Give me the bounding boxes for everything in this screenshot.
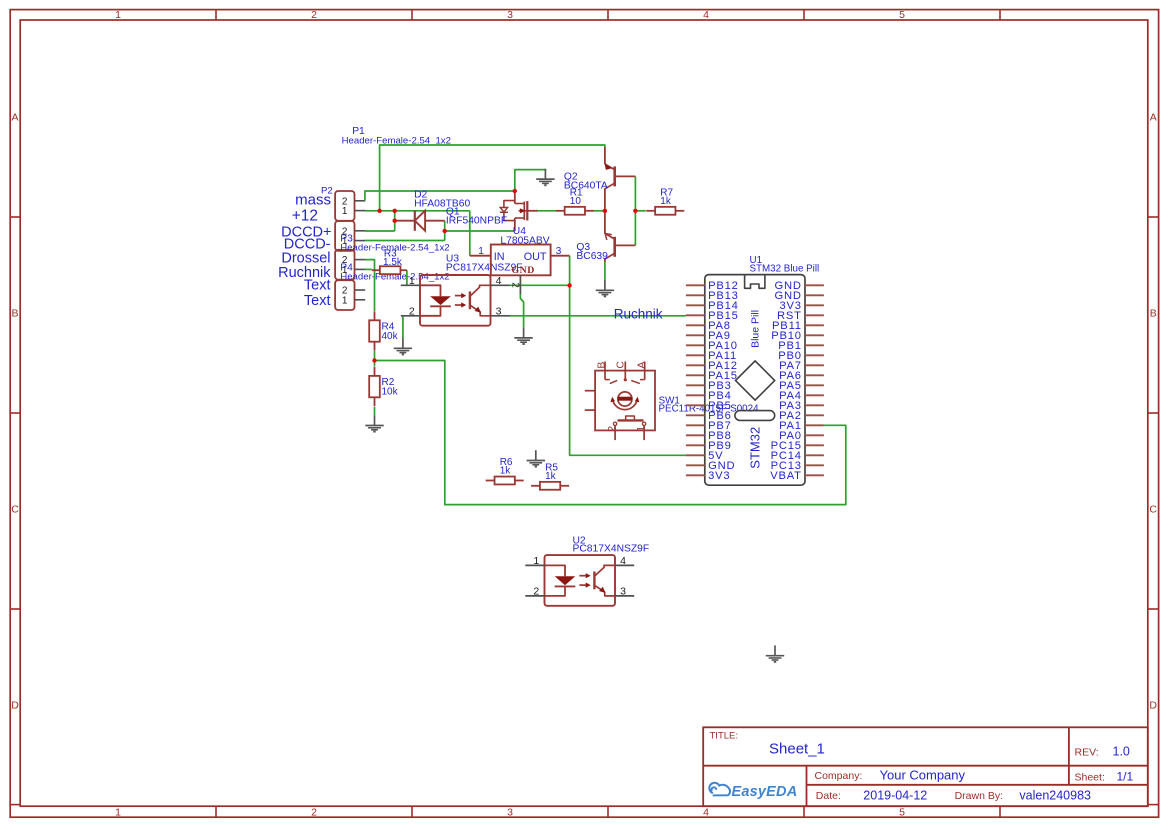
svg-text:3: 3 xyxy=(507,9,513,21)
svg-text:2: 2 xyxy=(311,9,317,21)
svg-text:OUT: OUT xyxy=(524,251,547,263)
svg-text:Company:: Company: xyxy=(815,770,863,782)
svg-text:Drawn By:: Drawn By: xyxy=(955,790,1003,802)
svg-text:C: C xyxy=(11,504,19,516)
svg-text:1: 1 xyxy=(478,246,484,257)
svg-text:3: 3 xyxy=(620,586,626,598)
svg-text:P2: P2 xyxy=(321,186,333,197)
svg-text:10k: 10k xyxy=(382,387,399,398)
svg-text:B: B xyxy=(1150,308,1157,320)
svg-text:1: 1 xyxy=(342,295,348,306)
svg-text:1: 1 xyxy=(342,206,348,217)
svg-text:BC639: BC639 xyxy=(576,251,608,262)
svg-text:1/1: 1/1 xyxy=(1117,770,1134,784)
svg-text:IN: IN xyxy=(494,251,505,263)
svg-text:D: D xyxy=(11,700,19,712)
svg-text:5: 5 xyxy=(899,9,905,21)
svg-text:D: D xyxy=(1149,700,1157,712)
svg-text:3: 3 xyxy=(556,246,562,257)
svg-text:3: 3 xyxy=(496,306,502,318)
svg-text:STM32: STM32 xyxy=(747,427,762,469)
svg-text:Ruchnik: Ruchnik xyxy=(614,306,663,321)
svg-text:Sheet_1: Sheet_1 xyxy=(769,740,825,757)
svg-text:1k: 1k xyxy=(545,471,557,482)
svg-text:3V3: 3V3 xyxy=(708,470,730,482)
svg-text:PC817X4NSZ9F: PC817X4NSZ9F xyxy=(573,544,650,555)
svg-text:40k: 40k xyxy=(382,331,399,342)
svg-text:valen240983: valen240983 xyxy=(1019,788,1091,802)
svg-text:2: 2 xyxy=(606,426,618,432)
svg-text:2: 2 xyxy=(533,586,539,598)
svg-text:4: 4 xyxy=(620,555,626,567)
svg-text:B: B xyxy=(11,308,18,320)
svg-text:A: A xyxy=(11,112,18,124)
svg-text:1k: 1k xyxy=(500,466,512,477)
svg-text:IRF540NPBF: IRF540NPBF xyxy=(446,216,507,227)
svg-text:REV:: REV: xyxy=(1075,746,1099,758)
svg-text:5: 5 xyxy=(899,806,905,818)
svg-text:1.5k: 1.5k xyxy=(383,257,403,268)
svg-text:2: 2 xyxy=(311,806,317,818)
svg-text:2: 2 xyxy=(510,282,521,288)
svg-text:Header-Female-2.54_1x2: Header-Female-2.54_1x2 xyxy=(340,272,449,283)
svg-text:1: 1 xyxy=(409,275,415,287)
svg-text:1: 1 xyxy=(533,555,539,567)
svg-text:4: 4 xyxy=(496,275,502,287)
svg-text:1k: 1k xyxy=(660,196,672,207)
svg-text:4: 4 xyxy=(703,806,709,818)
svg-text:EasyEDA: EasyEDA xyxy=(732,784,798,800)
svg-text:TITLE:: TITLE: xyxy=(710,730,739,741)
svg-text:1: 1 xyxy=(635,426,647,432)
svg-text:C: C xyxy=(1149,504,1157,516)
svg-text:10: 10 xyxy=(570,196,582,207)
svg-text:1: 1 xyxy=(115,9,121,21)
svg-text:4: 4 xyxy=(703,9,709,21)
svg-text:1: 1 xyxy=(115,806,121,818)
svg-text:2019-04-12: 2019-04-12 xyxy=(863,788,927,802)
svg-text:Sheet:: Sheet: xyxy=(1075,772,1105,784)
svg-text:A: A xyxy=(636,362,648,369)
svg-text:A: A xyxy=(1150,112,1157,124)
svg-text:STM32 Blue Pill: STM32 Blue Pill xyxy=(750,263,820,274)
svg-text:3: 3 xyxy=(507,806,513,818)
svg-text:B: B xyxy=(595,362,607,369)
svg-text:+12: +12 xyxy=(292,208,318,225)
svg-text:VBAT: VBAT xyxy=(770,470,802,482)
svg-text:GND: GND xyxy=(512,265,535,276)
svg-text:1.0: 1.0 xyxy=(1113,744,1130,758)
svg-text:Your Company: Your Company xyxy=(880,768,966,783)
svg-text:Date:: Date: xyxy=(816,790,841,802)
svg-text:Blue Pill: Blue Pill xyxy=(749,310,761,348)
svg-text:Text: Text xyxy=(304,293,331,309)
svg-text:HFA08TB60: HFA08TB60 xyxy=(414,199,470,210)
svg-text:2: 2 xyxy=(409,306,415,318)
svg-text:Text: Text xyxy=(304,278,331,294)
svg-text:C: C xyxy=(615,361,627,369)
